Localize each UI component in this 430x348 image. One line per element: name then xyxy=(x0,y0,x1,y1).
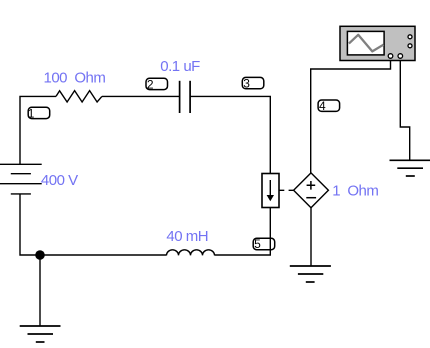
wire junction to ground stem xyxy=(39,255,41,326)
wire crossing node box 5 xyxy=(269,238,271,250)
current sensor box xyxy=(262,174,279,208)
wire inductor to bottom-right corner up to sensor xyxy=(215,208,271,256)
wire battery bottom to bottom-left corner xyxy=(20,194,167,255)
svg-text:100 Ohm: 100 Ohm xyxy=(44,69,106,86)
node box 3 xyxy=(242,77,263,91)
wire top left: battery top to resistor xyxy=(20,96,56,164)
svg-text:1: 1 xyxy=(28,106,35,120)
oscilloscope xyxy=(340,26,415,60)
ground below scope xyxy=(390,160,430,176)
node box 5 xyxy=(253,237,275,251)
svg-text:4: 4 xyxy=(319,99,326,113)
resistor 100 Ohm zigzag xyxy=(56,91,102,102)
ground bottom-left xyxy=(20,326,61,342)
ground below dependent source xyxy=(290,266,331,282)
junction dot xyxy=(35,250,45,260)
wire capacitor to right corner down to sensor xyxy=(190,96,270,173)
svg-text:0.1 uF: 0.1 uF xyxy=(160,58,200,75)
inductor 40 mH xyxy=(167,250,215,256)
wire resistor to capacitor xyxy=(102,95,179,97)
node box 1 xyxy=(28,106,50,120)
svg-text:40 mH: 40 mH xyxy=(166,228,208,245)
node box 4 xyxy=(318,99,340,113)
wire scope right terminal to ground xyxy=(400,61,409,160)
wire diamond bottom to ground xyxy=(310,208,312,266)
wire diamond top to scope left terminal xyxy=(311,61,391,173)
capacitor 0.1 uF plates xyxy=(180,81,191,113)
svg-text:5: 5 xyxy=(254,237,261,251)
battery 400 V xyxy=(0,164,42,194)
node box 2 xyxy=(146,77,168,91)
svg-text:2: 2 xyxy=(147,77,154,91)
dashed link sensor to dependent source xyxy=(280,189,294,191)
svg-text:400 V: 400 V xyxy=(41,172,78,189)
dependent source CCVS diamond xyxy=(294,173,329,208)
svg-text:3: 3 xyxy=(243,77,250,91)
svg-text:1 Ohm: 1 Ohm xyxy=(332,183,378,200)
